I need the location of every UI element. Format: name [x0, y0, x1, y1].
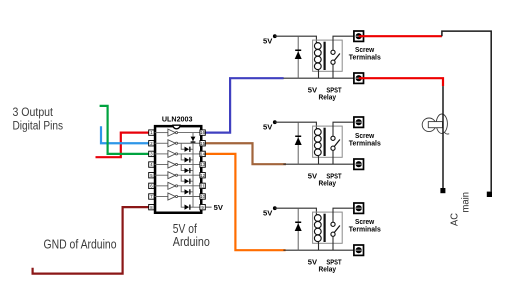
svg-text:GND of Arduino: GND of Arduino	[44, 237, 117, 251]
U1 pin 9	[200, 204, 205, 209]
svg-text:5V: 5V	[263, 208, 273, 217]
U1 pin 6	[149, 183, 154, 188]
relay K2 SPST contact circles and blade	[331, 136, 340, 150]
node: 5V junction dot (relay 3)	[273, 206, 277, 210]
svg-text:16: 16	[200, 130, 205, 135]
AC plug prong right	[487, 192, 492, 197]
U1 pin 11	[200, 183, 206, 188]
U1 channel 5 input line	[154, 174, 168, 176]
relay K3 core bar	[324, 214, 326, 242]
U1 channel 5 inverter bubble	[175, 174, 177, 176]
wire red: Arduino digital pin to ULN2003 pin 1	[96, 133, 150, 158]
U1 channel 3 output line to pin 14	[178, 153, 200, 155]
svg-text:Relay: Relay	[319, 178, 337, 187]
U1 pin 3	[149, 151, 154, 156]
U1 channel 6 input line	[154, 185, 168, 187]
relay K1 SPST contact circles and blade	[331, 50, 340, 64]
wire red: relay K1 bottom terminal to lamp line	[359, 78, 443, 86]
label Screw Terminals (relay 1)	[349, 45, 381, 62]
svg-text:10: 10	[200, 194, 205, 199]
U1 pin 16	[200, 130, 206, 135]
U1 channel 6 flyback diode	[181, 186, 193, 195]
U1 channel 7 input line	[154, 196, 168, 198]
wire: relay K3 bottom rail	[283, 249, 354, 251]
U1 channel 6 output line to pin 11	[178, 185, 200, 187]
U1 pin 7	[149, 194, 154, 199]
label Screw Terminals (relay 2)	[349, 131, 381, 148]
U1 channel 3 flyback diode	[181, 154, 193, 163]
U1 pin 5	[149, 173, 154, 178]
screw terminal bottom (relay 1)	[354, 73, 364, 83]
svg-text:Relay: Relay	[319, 92, 337, 101]
U1 pin 8	[149, 204, 154, 209]
svg-text:11: 11	[200, 183, 205, 188]
diode D2 flyback across coil	[295, 122, 302, 164]
svg-text:5V: 5V	[214, 203, 224, 212]
U1 channel 6 inverter triangle	[168, 182, 176, 189]
svg-text:Digital Pins: Digital Pins	[13, 121, 64, 133]
U1 pin 15	[200, 141, 206, 146]
wire: relay K2 bottom rail	[283, 163, 354, 165]
relay K3 SPST contact circles and blade	[331, 222, 340, 236]
U1 channel 4 flyback diode	[181, 165, 193, 174]
U1 channel 7 flyback diode	[181, 197, 193, 210]
svg-text:5V: 5V	[308, 258, 318, 267]
wire: relay K1 bottom rail	[283, 77, 354, 79]
U1 channel 1 flyback diode (down)	[191, 137, 196, 143]
U1 pin 12	[200, 173, 206, 178]
relay K2 coil	[314, 129, 321, 156]
svg-text:5V: 5V	[263, 122, 273, 131]
svg-text:Relay: Relay	[319, 264, 337, 273]
wire: relay K2 switch bottom	[332, 150, 334, 164]
op-amp/driver IC U1 ULN2003 body	[155, 125, 201, 213]
svg-text:15: 15	[200, 141, 205, 146]
U1 channel 1 inverter triangle	[168, 129, 176, 136]
U1 channel 4 output line to pin 13	[178, 164, 200, 166]
U1 pin 4	[149, 162, 154, 167]
U1 pin 13	[200, 162, 206, 167]
relay K2 core bar	[324, 128, 326, 156]
U1 channel 4 input line	[154, 164, 168, 166]
svg-text:5V of: 5V of	[173, 222, 197, 236]
wire: relay K3 coil bottom tap	[318, 242, 320, 251]
wire red: relay K1 top terminal to AC line	[359, 35, 442, 37]
U1 channel 7 inverter triangle	[168, 193, 176, 200]
wire: 5V to relay K1 coil top	[275, 36, 317, 42]
U1 channel 1 input line	[154, 132, 168, 134]
wire black: AC line right loop	[442, 31, 491, 192]
U1 channel 2 inverter bubble	[175, 142, 177, 144]
screw terminal bottom (relay 2)	[354, 159, 364, 169]
wire maroon: GND of Arduino to ULN2003 pin 8	[33, 207, 150, 273]
screw terminal top (relay 3)	[354, 203, 364, 213]
wire: relay K3 switch bottom	[332, 236, 334, 250]
wire: relay K2 coil bottom tap	[318, 156, 320, 165]
U1 channel 3 inverter triangle	[168, 150, 176, 157]
U1 channel 5 inverter triangle	[168, 172, 176, 179]
relay K1 core bar	[324, 42, 326, 70]
screw terminal bottom (relay 3)	[354, 245, 364, 255]
relay K2 box	[313, 126, 343, 157]
label AC main (rotated)	[449, 192, 471, 226]
U1 channel 2 input line	[154, 142, 168, 144]
wire light-blue: Arduino digital pin to ULN2003 pin 2	[101, 126, 150, 143]
svg-text:Arduino: Arduino	[173, 235, 210, 249]
wire: relay K1 coil bottom tap	[318, 70, 320, 79]
U1 channel 7 inverter bubble	[175, 195, 177, 197]
node: 5V junction dot (relay 1)	[273, 34, 277, 38]
U1 pin 9 5V tie	[205, 203, 224, 212]
svg-text:ULN2003: ULN2003	[162, 114, 193, 123]
relay K3 box	[313, 212, 343, 243]
svg-text:5V: 5V	[308, 86, 318, 95]
wire: relay K3 switch to top screw terminal	[333, 208, 355, 222]
U1 channel 2 output line to pin 15	[178, 142, 200, 144]
svg-text:AC: AC	[449, 213, 460, 226]
wire: 5V to relay K2 coil top	[275, 122, 317, 128]
wire: relay K2 switch to top screw terminal	[333, 122, 355, 136]
svg-text:12: 12	[200, 173, 205, 178]
U1 channel 5 flyback diode	[181, 175, 193, 184]
diode D1 flyback across coil	[295, 36, 302, 78]
label: 3 Output Digital Pins	[13, 107, 64, 132]
label Screw Terminals (relay 3)	[349, 217, 381, 234]
U1 channel 2 flyback diode	[181, 143, 193, 152]
wire: 5V to relay K3 coil top	[275, 208, 317, 214]
relay K1 coil	[314, 43, 321, 70]
svg-text:5V: 5V	[308, 172, 318, 181]
lamp LP1 (bulb)	[422, 114, 449, 134]
svg-text:Terminals: Terminals	[349, 53, 381, 62]
U1 channel 2 inverter triangle	[168, 140, 176, 147]
wire green: Arduino digital pin to ULN2003 pin 3	[100, 106, 150, 154]
U1 channel 4 inverter bubble	[175, 164, 177, 166]
svg-text:14: 14	[200, 152, 205, 157]
U1 channel 3 input line	[154, 153, 168, 155]
AC plug prong left	[440, 188, 445, 193]
U1 channel 4 inverter triangle	[168, 161, 176, 168]
U1 pin 10	[200, 194, 206, 199]
wire dark-blue: ULN2003 pin 16 to relay K1 coil input	[204, 78, 283, 132]
wire black: lamp line down	[442, 86, 444, 188]
U1 channel 1 inverter bubble	[175, 132, 177, 134]
svg-text:3 Output: 3 Output	[13, 107, 54, 119]
wire brown: ULN2003 pin 15 to relay K2 coil input	[204, 143, 286, 164]
screw terminal top (relay 2)	[354, 117, 364, 127]
relay K3 coil	[314, 215, 321, 242]
label: 5V of Arduino	[173, 222, 210, 249]
U1 channel 5 output line to pin 12	[178, 174, 200, 176]
U1 common diode rail to pin 9	[193, 133, 200, 208]
U1 channel 3 inverter bubble	[175, 153, 177, 155]
U1 pin 1	[149, 130, 154, 135]
U1 pin 14	[200, 151, 206, 156]
diode D3 flyback across coil	[295, 208, 302, 250]
relay K1 box	[313, 40, 343, 71]
svg-text:Terminals: Terminals	[349, 139, 381, 148]
U1 channel 7 output line to pin 10	[178, 196, 200, 198]
wire: relay K1 switch bottom	[332, 64, 334, 78]
wire orange: ULN2003 pin 14 to relay K3 coil input	[204, 154, 285, 250]
svg-text:13: 13	[200, 162, 205, 167]
svg-text:5V: 5V	[263, 36, 273, 45]
U1 channel 1 output line to pin 16	[178, 132, 200, 134]
U1 channel 6 inverter bubble	[175, 185, 177, 187]
U1 pin 2	[149, 141, 154, 146]
svg-text:Terminals: Terminals	[349, 225, 381, 234]
wire: relay K1 switch to top screw terminal	[333, 36, 355, 50]
svg-text:main: main	[461, 192, 472, 213]
screw terminal top (relay 1)	[354, 31, 364, 41]
node: 5V junction dot (relay 2)	[273, 120, 277, 124]
